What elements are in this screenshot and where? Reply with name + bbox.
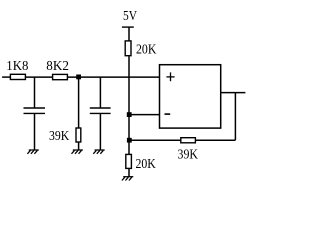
resistor R4 39K vertical body [76,128,81,142]
svg-text:20K: 20K [136,43,156,58]
wire input left [2,76,10,78]
op-amp minus input mark [165,113,171,115]
resistor R3 20K top body [125,41,131,56]
junction dot inverting input node [127,112,132,117]
wire R2 to op-amp noninverting input [68,76,160,78]
wire inverting input from rail to op-amp [129,114,160,116]
wire R1 to R2 [26,76,52,78]
ground under C2 [93,150,104,154]
wire feedback vertical from output [234,93,236,141]
svg-text:1K8: 1K8 [6,59,28,74]
svg-text:5V: 5V [123,9,137,24]
wire R4 bottom to ground [78,142,80,150]
wire feedback left segment [129,139,180,141]
junction dot feedback node [127,138,132,143]
capacitor C2 plates [90,107,111,109]
ground under R5 [122,177,133,181]
svg-text:39K: 39K [178,148,199,163]
ground under C1 [27,150,38,154]
wire C2 top drop [99,77,101,107]
wire output [221,92,246,94]
wire C1 top drop [34,77,36,107]
wire C1 bottom to ground [34,113,36,150]
resistor R1 1K8 body [10,74,25,79]
svg-text:20K: 20K [136,157,156,172]
wire C2 bottom to ground [99,113,101,150]
wire R5 bottom to ground [128,169,130,177]
wire 5V terminal to R3 [128,27,130,40]
resistor R6 39K feedback body [181,138,196,143]
svg-text:39K: 39K [49,129,69,144]
svg-text:8K2: 8K2 [46,59,69,74]
op-amp U1 body [160,65,221,128]
ground under R4 [72,150,83,154]
wire feedback right segment [196,139,236,141]
capacitor C1 plates [24,107,46,109]
resistor R5 20K bottom body [126,154,132,168]
wire R3 down rail through signal wire to feedback node [128,56,130,140]
resistor R2 8K2 body [53,74,68,79]
junction dot signal node [76,75,81,80]
wire junction node down to R4 [78,77,80,128]
op-amp plus input mark [166,72,174,81]
wire feedback node down to R5 [128,140,130,154]
power terminal bar 5V [122,26,134,28]
